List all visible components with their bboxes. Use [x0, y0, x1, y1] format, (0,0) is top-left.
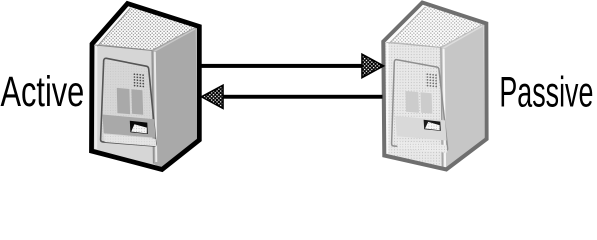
- tower outline: [383, 3, 486, 170]
- right side face: [152, 27, 198, 170]
- top face / front face boundary line: [386, 43, 441, 48]
- svg-text:Passive: Passive: [499, 68, 593, 115]
- floppy slot wedge: [131, 124, 147, 133]
- front panel outline: [392, 60, 448, 151]
- arrow shaft: [223, 95, 383, 99]
- top-left bevel line: [388, 7, 425, 44]
- arrowhead: [202, 85, 224, 108]
- front face stipple overlay: [385, 42, 443, 169]
- right edge inner bevel: [196, 29, 199, 139]
- svg-text:Active: Active: [1, 68, 85, 115]
- right side face: [441, 24, 486, 170]
- front-right edge light bevel: [444, 49, 446, 167]
- floppy slot: [424, 120, 441, 131]
- mid band: [103, 115, 156, 138]
- tower body silhouette fill: [92, 4, 200, 170]
- front panel details: [101, 58, 157, 146]
- front-right vertical edge: [441, 48, 443, 169]
- left edge inner bevel: [386, 44, 389, 154]
- top-right diagonal bevel on right face: [443, 26, 483, 49]
- front-right vertical edge: [152, 51, 154, 164]
- lower pedestal band (stippled): [104, 134, 156, 146]
- floppy slot wedge: [425, 122, 440, 130]
- top face / front face boundary line: [95, 45, 152, 51]
- front face: [385, 42, 443, 169]
- vent dot grid: [134, 73, 145, 87]
- left edge inner bevel: [95, 46, 98, 149]
- front panel stipple texture: [101, 60, 157, 146]
- top-left bevel strip: [93, 6, 131, 47]
- arrow right (top), Active to Passive: [199, 54, 384, 77]
- top-left bevel line: [97, 8, 130, 47]
- front face: [93, 44, 154, 164]
- top-right diagonal bevel on right face: [154, 29, 195, 52]
- arrow left (bottom), Passive to Active: [202, 85, 383, 108]
- drive bay right: [131, 89, 143, 115]
- front panel details: [392, 60, 448, 153]
- server tower (Active, left): [92, 4, 200, 170]
- drive bay left: [405, 91, 419, 113]
- server tower (Passive, right): [383, 3, 486, 170]
- top face (stippled): [94, 5, 197, 51]
- tower outline: [92, 4, 200, 170]
- mid band: [395, 116, 446, 141]
- arrow shaft: [199, 64, 363, 68]
- right edge inner bevel: [484, 26, 487, 138]
- vent dot grid: [426, 73, 437, 87]
- top face (stippled): [385, 4, 484, 48]
- tower body silhouette fill: [383, 3, 486, 170]
- floppy slot: [130, 121, 148, 134]
- front-right edge light bevel: [155, 52, 157, 162]
- front panel outline: [101, 58, 156, 146]
- lower pedestal band (stippled): [397, 141, 447, 153]
- drive bay left: [117, 88, 130, 114]
- drive bay right: [421, 92, 433, 113]
- arrowhead: [362, 54, 384, 77]
- top-left bevel strip: [384, 5, 425, 44]
